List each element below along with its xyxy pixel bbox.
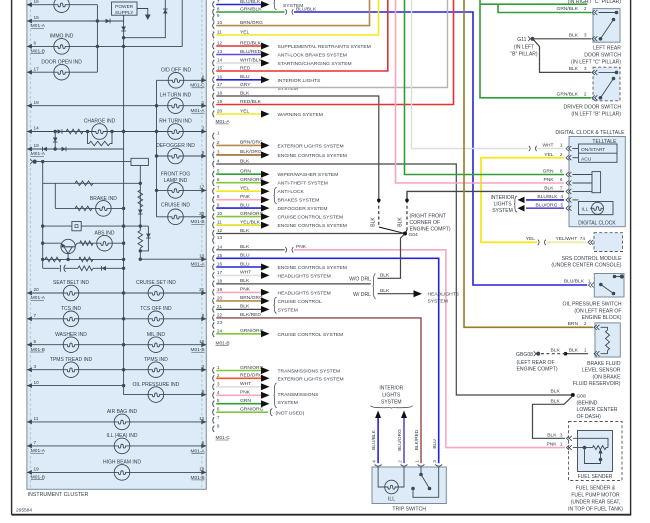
svg-text:BLK: BLK bbox=[569, 347, 579, 353]
svg-text:8: 8 bbox=[560, 169, 563, 174]
clock pin 6 PNK bbox=[566, 181, 569, 186]
svg-text:CRUISE CONTROL SYSTEM: CRUISE CONTROL SYSTEM bbox=[278, 215, 344, 221]
svg-text:POWER: POWER bbox=[115, 4, 134, 10]
CHARGE IND / RH TURN IND row bbox=[27, 131, 206, 133]
rect-chain vertical x140.3 bbox=[139, 166, 141, 227]
svg-text:ON/START: ON/START bbox=[581, 147, 605, 153]
svg-text:2: 2 bbox=[217, 373, 220, 378]
clock pin 8 GRN bbox=[566, 172, 569, 177]
svg-text:BRAKES SYSTEM: BRAKES SYSTEM bbox=[278, 198, 320, 204]
pin 15 (M01-B) bbox=[213, 255, 215, 261]
svg-text:(RIGHT FRONT: (RIGHT FRONT bbox=[410, 214, 446, 220]
svg-text:15: 15 bbox=[217, 253, 223, 258]
resistor row y183.3 bbox=[43, 182, 141, 184]
svg-text:HEADLIGHTS: HEADLIGHTS bbox=[428, 292, 460, 298]
svg-text:DRIVER DOOR SWITCH: DRIVER DOOR SWITCH bbox=[564, 105, 622, 111]
svg-text:(ON LEFT REAR OF: (ON LEFT REAR OF bbox=[574, 308, 621, 314]
svg-text:BLK: BLK bbox=[551, 388, 561, 394]
svg-text:14: 14 bbox=[217, 244, 223, 249]
svg-text:2: 2 bbox=[560, 152, 563, 157]
square component row y226.1 bbox=[43, 225, 141, 227]
pin 2 (M01-C) bbox=[213, 375, 215, 381]
connector M01-B group bbox=[212, 133, 214, 337]
svg-text:2: 2 bbox=[584, 321, 587, 326]
driver door switch (dashed) bbox=[593, 67, 620, 101]
pin 16 (M01-A) bbox=[213, 77, 215, 83]
wire BLU/ORG to trip pin 2 bbox=[401, 411, 407, 419]
pin 1 (M01-C) bbox=[213, 367, 215, 373]
SEAT BELT IND / CRUISE SET IND row bbox=[27, 292, 206, 294]
svg-text:SYSTEM: SYSTEM bbox=[381, 400, 402, 406]
svg-text:9: 9 bbox=[217, 13, 220, 18]
svg-text:LOWER CENTER: LOWER CENTER bbox=[577, 407, 618, 413]
pin 22 (M01-B) bbox=[213, 315, 215, 321]
clock inner component box bbox=[592, 172, 601, 193]
svg-text:11: 11 bbox=[217, 220, 222, 225]
svg-text:19: 19 bbox=[34, 143, 40, 148]
svg-text:17: 17 bbox=[217, 270, 223, 275]
svg-text:FUEL SENDER: FUEL SENDER bbox=[578, 474, 613, 480]
pin 15 row bbox=[27, 20, 124, 22]
cruise node row -> pin 13 bbox=[140, 225, 148, 227]
svg-text:7: 7 bbox=[34, 313, 37, 318]
pin 3 (M01-C) bbox=[213, 384, 215, 390]
DOOR OPEN IND row (pin 17) bbox=[27, 71, 98, 73]
wire BLK G11 to driver switch bbox=[534, 40, 591, 72]
pin 6 (M01-B) bbox=[213, 180, 215, 186]
svg-text:BLK: BLK bbox=[547, 432, 557, 438]
fuel sender wiper bbox=[585, 448, 601, 464]
svg-text:BLK: BLK bbox=[544, 186, 554, 192]
pin 5 (M01-C) bbox=[213, 401, 215, 407]
pin 24 (M01-B) bbox=[213, 331, 215, 337]
svg-text:OF DASH): OF DASH) bbox=[577, 414, 602, 420]
svg-text:(LEFT REAR OF: (LEFT REAR OF bbox=[517, 360, 555, 366]
svg-text:INTERIOR: INTERIOR bbox=[379, 386, 403, 392]
svg-text:16: 16 bbox=[217, 262, 223, 267]
svg-text:DEFOGGER SYSTEM: DEFOGGER SYSTEM bbox=[278, 206, 328, 212]
svg-text:HEADLIGHTS SYSTEM: HEADLIGHTS SYSTEM bbox=[278, 290, 331, 296]
pin 20 (M01-B) bbox=[213, 298, 215, 304]
svg-text:SYSTEM: SYSTEM bbox=[428, 299, 448, 305]
svg-text:GRN/BLK: GRN/BLK bbox=[557, 92, 579, 98]
svg-text:ACU: ACU bbox=[581, 157, 592, 163]
svg-text:ENGINE CONTROLS SYSTEM: ENGINE CONTROLS SYSTEM bbox=[278, 153, 347, 159]
svg-text:5: 5 bbox=[217, 398, 220, 403]
svg-text:YEL/WHT: YEL/WHT bbox=[556, 236, 578, 242]
svg-text:18: 18 bbox=[217, 91, 223, 96]
svg-text:BLK: BLK bbox=[398, 217, 404, 227]
svg-text:12: 12 bbox=[217, 228, 223, 233]
pin 6 (M01-C) bbox=[213, 409, 215, 415]
pin 4 (M01-B) bbox=[213, 161, 215, 167]
wire BLK G11 to left rear switch bbox=[535, 38, 592, 40]
pin 16 (M01-B) bbox=[213, 264, 215, 270]
interior lights arrows at clock bbox=[526, 199, 564, 201]
svg-text:DIGITAL CLOCK: DIGITAL CLOCK bbox=[578, 220, 616, 226]
trip switch box bbox=[372, 467, 446, 504]
figure border bottom bbox=[12, 514, 632, 516]
svg-text:ANTI-THEFT SYSTEM: ANTI-THEFT SYSTEM bbox=[278, 181, 328, 187]
svg-text:3: 3 bbox=[217, 149, 220, 154]
svg-text:7: 7 bbox=[217, 186, 220, 191]
figure border right bbox=[630, 0, 632, 515]
svg-text:WIPER/WASHER SYSTEM: WIPER/WASHER SYSTEM bbox=[278, 172, 339, 178]
svg-text:FUEL SENDER &: FUEL SENDER & bbox=[576, 485, 616, 491]
telltale inner box ON/START ACU bbox=[579, 144, 618, 162]
svg-text:9: 9 bbox=[217, 203, 220, 208]
svg-text:1: 1 bbox=[217, 131, 220, 136]
connector M01-A group bbox=[212, 1, 214, 118]
svg-text:17: 17 bbox=[217, 82, 223, 87]
svg-text:ENGINE COMPT): ENGINE COMPT) bbox=[410, 227, 451, 233]
svg-text:BRAKE FLUID: BRAKE FLUID bbox=[587, 361, 621, 367]
svg-text:1: 1 bbox=[202, 100, 205, 105]
svg-text:W/ DRL: W/ DRL bbox=[353, 292, 371, 298]
DEFOGGER IND row bbox=[157, 155, 207, 157]
svg-text:21: 21 bbox=[199, 287, 205, 292]
wire BLK + ground GBG08 bbox=[566, 353, 589, 355]
svg-text:19: 19 bbox=[217, 287, 223, 292]
svg-text:INSTRUMENT CLUSTER: INSTRUMENT CLUSTER bbox=[28, 492, 89, 498]
svg-text:265584: 265584 bbox=[16, 507, 32, 513]
svg-text:2: 2 bbox=[584, 92, 587, 97]
pin 21 (M01-B) bbox=[213, 306, 215, 312]
svg-text:TRIP SWITCH: TRIP SWITCH bbox=[392, 506, 426, 512]
svg-text:(IN LEFT: (IN LEFT bbox=[514, 44, 534, 50]
svg-text:(IN LEFT "B" PILLAR): (IN LEFT "B" PILLAR) bbox=[571, 112, 621, 118]
wire: vertical x97.4 bbox=[96, 5, 98, 73]
connector M01-C group bbox=[212, 367, 214, 432]
svg-text:2: 2 bbox=[398, 460, 403, 463]
pin 10 feed row + OIL PRESSURE IND row bbox=[27, 385, 124, 387]
pin 11 (M01-B) bbox=[213, 222, 215, 228]
svg-text:8: 8 bbox=[217, 423, 220, 428]
pin 13 (M01-A) bbox=[213, 51, 215, 57]
ground row y161.6 w/ box component bbox=[33, 160, 37, 164]
svg-text:BLK: BLK bbox=[551, 399, 561, 405]
svg-text:LEVEL SENSOR: LEVEL SENSOR bbox=[582, 368, 621, 374]
svg-text:10: 10 bbox=[217, 20, 223, 25]
feed vertical x182.2 bbox=[124, 0, 183, 46]
svg-text:1: 1 bbox=[560, 143, 563, 148]
svg-text:FLUID RESERVOIR): FLUID RESERVOIR) bbox=[573, 381, 621, 387]
pin 20 (M01-A) bbox=[213, 111, 215, 117]
diode feed x165.3 bbox=[124, 0, 166, 38]
svg-text:3: 3 bbox=[584, 33, 587, 38]
right column bus x156.5 bbox=[156, 80, 158, 217]
pin 7 (M01-A) bbox=[213, 1, 215, 7]
svg-text:23: 23 bbox=[217, 320, 223, 325]
pin 9 (M01-A) bbox=[213, 15, 215, 21]
svg-text:BLK: BLK bbox=[371, 217, 377, 227]
svg-text:19: 19 bbox=[217, 99, 223, 104]
CRUISE IND row bbox=[157, 216, 207, 218]
pin 10 (M01-B) bbox=[213, 214, 215, 220]
svg-text:3: 3 bbox=[217, 381, 220, 386]
pin 8 (M01-B) bbox=[213, 197, 215, 203]
pin 17 (M01-A) bbox=[213, 84, 215, 90]
svg-text:HEADLIGHTS SYSTEM: HEADLIGHTS SYSTEM bbox=[278, 273, 331, 279]
svg-text:CRUISE IND: CRUISE IND bbox=[161, 203, 190, 209]
svg-text:1: 1 bbox=[560, 442, 563, 447]
LH TURN IND row (pin18 left / pin1 right) bbox=[27, 105, 206, 107]
clock pin 2 YEL bbox=[566, 155, 569, 160]
svg-text:BLU/BLK: BLU/BLK bbox=[371, 429, 377, 450]
svg-text:INTERIOR: INTERIOR bbox=[491, 195, 515, 201]
pin 19 (M01-A) bbox=[213, 101, 215, 107]
TPMS TREAD IND / TPMS IND row bbox=[27, 369, 206, 371]
svg-text:(IN LEFT "C" PILLAR): (IN LEFT "C" PILLAR) bbox=[571, 60, 621, 66]
clock pin 4 BLU/BLK bbox=[566, 197, 569, 202]
wire BLU/BLK to trip pin 4 bbox=[375, 411, 381, 419]
connector dashed boundary right (M01) bbox=[201, 0, 203, 489]
svg-text:12: 12 bbox=[217, 41, 223, 46]
svg-text:SUPPLY: SUPPLY bbox=[115, 10, 134, 16]
svg-text:2: 2 bbox=[217, 140, 220, 145]
svg-text:BLK: BLK bbox=[551, 347, 561, 353]
pin 12 (M01-A) bbox=[213, 43, 215, 49]
svg-text:4: 4 bbox=[561, 194, 564, 199]
svg-text:5: 5 bbox=[561, 202, 564, 207]
svg-text:10: 10 bbox=[34, 380, 40, 385]
wire: power supply right + down arrow bbox=[137, 9, 148, 15]
svg-text:TRANSMISSIONS SYSTEM: TRANSMISSIONS SYSTEM bbox=[278, 369, 341, 375]
svg-text:7: 7 bbox=[560, 186, 563, 191]
main vertical bus x123.6 bbox=[123, 21, 125, 386]
svg-text:BLK: BLK bbox=[380, 288, 390, 294]
svg-text:OIL PRESSURE SWITCH: OIL PRESSURE SWITCH bbox=[563, 302, 622, 308]
pin 8 (M01-C) bbox=[213, 426, 215, 432]
svg-text:ANTI-LOCK: ANTI-LOCK bbox=[278, 189, 305, 195]
svg-text:BLK: BLK bbox=[569, 66, 579, 72]
pin 13 (M01-B) bbox=[213, 237, 215, 243]
wire BRN from top bbox=[464, 0, 593, 327]
pin 18 (M01-B) bbox=[213, 281, 215, 287]
svg-text:G11: G11 bbox=[517, 37, 526, 43]
connector dashed boundary left (M01) bbox=[29, 0, 31, 489]
svg-text:74: 74 bbox=[580, 236, 586, 241]
svg-text:FUEL PUMP MOTOR: FUEL PUMP MOTOR bbox=[571, 492, 620, 498]
svg-text:18: 18 bbox=[199, 467, 205, 472]
svg-text:8: 8 bbox=[217, 194, 220, 199]
svg-text:19: 19 bbox=[34, 467, 40, 472]
left rear door switch bbox=[593, 9, 620, 43]
pin 14 (M01-B) bbox=[213, 247, 215, 253]
svg-text:"B" PILLAR): "B" PILLAR) bbox=[510, 51, 538, 57]
pin 18 (M01-A) bbox=[213, 93, 215, 99]
svg-text:20: 20 bbox=[217, 295, 223, 300]
svg-text:16: 16 bbox=[34, 0, 40, 4]
svg-text:BLK: BLK bbox=[380, 272, 390, 278]
BRAKE IND row bbox=[55, 207, 123, 209]
svg-text:1: 1 bbox=[217, 365, 220, 370]
svg-text:18: 18 bbox=[34, 100, 40, 105]
pin 12 (M01-B) bbox=[213, 230, 215, 236]
svg-text:6: 6 bbox=[560, 177, 563, 182]
svg-text:ILL: ILL bbox=[582, 206, 589, 212]
wire: power supply bottom stub bbox=[123, 15, 125, 21]
svg-text:8: 8 bbox=[202, 313, 205, 318]
svg-text:BLK: BLK bbox=[569, 33, 579, 39]
svg-text:13: 13 bbox=[199, 253, 205, 258]
svg-text:WARNING SYSTEM: WARNING SYSTEM bbox=[278, 112, 323, 118]
svg-text:16: 16 bbox=[217, 74, 223, 79]
clock pin 5 BLU/ORG bbox=[566, 206, 569, 211]
wire GRN/BLK from top to door switches bbox=[480, 0, 591, 98]
svg-text:11: 11 bbox=[217, 30, 222, 35]
clock ILL lamp box bbox=[579, 202, 614, 215]
svg-text:ENGINE BLOCK): ENGINE BLOCK) bbox=[582, 315, 622, 321]
svg-text:SYSTEM: SYSTEM bbox=[278, 307, 298, 313]
svg-text:8: 8 bbox=[217, 7, 220, 12]
SRS control module (dashed) bbox=[594, 233, 623, 252]
svg-text:DOOR SWITCH: DOOR SWITCH bbox=[584, 53, 621, 59]
svg-text:BLU: BLU bbox=[432, 439, 438, 449]
pin 5 (M01-B) bbox=[213, 171, 215, 177]
ground G04 bbox=[403, 232, 407, 236]
svg-text:11: 11 bbox=[34, 416, 39, 421]
svg-text:ILL: ILL bbox=[388, 497, 395, 503]
power supply box bbox=[112, 2, 138, 15]
svg-text:BLK/RED: BLK/RED bbox=[414, 429, 420, 450]
svg-text:(ON BRAKE: (ON BRAKE bbox=[592, 374, 621, 380]
svg-text:20: 20 bbox=[217, 109, 223, 114]
svg-text:ENGINE COMPT): ENGINE COMPT) bbox=[517, 367, 558, 373]
ILL (4EA) IND row bbox=[27, 445, 206, 447]
pin 11 (M01-A) bbox=[213, 32, 215, 38]
svg-text:13: 13 bbox=[217, 49, 223, 54]
pin 7 (M01-B) bbox=[213, 188, 215, 194]
trip ILL lamp bbox=[378, 467, 384, 487]
pin 14 (M01-A) bbox=[213, 60, 215, 66]
figure border left bbox=[11, 0, 13, 515]
svg-text:LEFT REAR: LEFT REAR bbox=[593, 46, 621, 52]
svg-text:6: 6 bbox=[217, 407, 220, 412]
ground G08 bbox=[571, 393, 575, 397]
svg-text:IN TOP OF FUEL TANK): IN TOP OF FUEL TANK) bbox=[568, 506, 623, 512]
svg-text:12: 12 bbox=[199, 416, 205, 421]
pin 16 row / top lamp (cut) bbox=[27, 4, 98, 6]
svg-text:21: 21 bbox=[217, 304, 223, 309]
svg-text:3: 3 bbox=[584, 66, 587, 71]
svg-text:6: 6 bbox=[202, 440, 205, 445]
pin 15 (M01-A) bbox=[213, 68, 215, 74]
WASHER IND / MIL IND row bbox=[27, 344, 206, 346]
svg-text:GRN/BLK: GRN/BLK bbox=[557, 6, 579, 12]
svg-text:(BEHIND: (BEHIND bbox=[577, 401, 598, 407]
svg-text:SUPPLEMENTAL RESTRAINTS SYSTEM: SUPPLEMENTAL RESTRAINTS SYSTEM bbox=[278, 44, 371, 50]
svg-text:10: 10 bbox=[217, 211, 223, 216]
svg-text:4: 4 bbox=[217, 159, 220, 164]
left bus x55.2 w/ diode bbox=[54, 132, 56, 150]
AIR BAG IND row bbox=[27, 421, 206, 423]
svg-text:3: 3 bbox=[432, 460, 437, 463]
svg-text:(NOT USED): (NOT USED) bbox=[276, 410, 305, 416]
svg-text:TRANSMISSIONS: TRANSMISSIONS bbox=[278, 392, 320, 398]
ground G11 bbox=[530, 37, 534, 41]
svg-text:(IN RIGHT "C" PILLAR): (IN RIGHT "C" PILLAR) bbox=[568, 0, 622, 5]
svg-text:SRS CONTROL MODULE: SRS CONTROL MODULE bbox=[562, 256, 622, 262]
svg-text:EXTERIOR LIGHTS SYSTEM: EXTERIOR LIGHTS SYSTEM bbox=[278, 143, 344, 149]
svg-text:3: 3 bbox=[560, 432, 563, 437]
wire WHT vertical from top w/ inline connector bbox=[412, 0, 529, 149]
brake feed vertical x55.3 bbox=[54, 183, 56, 208]
svg-text:6: 6 bbox=[202, 75, 205, 80]
svg-text:20: 20 bbox=[199, 211, 205, 216]
svg-text:BRN: BRN bbox=[568, 321, 579, 327]
cap/diode row y268.3 bbox=[43, 267, 60, 269]
svg-text:BLU/ORG: BLU/ORG bbox=[397, 429, 403, 451]
svg-text:2: 2 bbox=[584, 6, 587, 11]
svg-text:CORNER OF: CORNER OF bbox=[410, 220, 441, 226]
svg-text:LIGHTS: LIGHTS bbox=[493, 201, 512, 207]
svg-text:6: 6 bbox=[34, 41, 37, 46]
HIGH BEAM IND row bbox=[27, 471, 206, 473]
svg-text:G04: G04 bbox=[409, 232, 419, 238]
pin 23 (M01-B) bbox=[213, 323, 215, 329]
svg-text:9: 9 bbox=[202, 150, 205, 155]
svg-text:2: 2 bbox=[202, 126, 205, 131]
IMMO IND row (pin 6) bbox=[27, 45, 124, 47]
pin 19 row w/ opposed diodes bbox=[27, 148, 124, 150]
svg-text:PNK: PNK bbox=[546, 442, 557, 448]
resistor row y259.4 bbox=[43, 258, 124, 260]
svg-text:W/O DRL: W/O DRL bbox=[349, 277, 371, 283]
parallel resistor under charge lamp bbox=[88, 132, 90, 144]
svg-text:6: 6 bbox=[217, 177, 220, 182]
svg-text:(UNDER CENTER CONSOLE): (UNDER CENTER CONSOLE) bbox=[551, 263, 621, 269]
svg-text:2: 2 bbox=[202, 364, 205, 369]
svg-text:3: 3 bbox=[34, 364, 37, 369]
svg-text:LIGHTS: LIGHTS bbox=[382, 393, 401, 399]
svg-text:EXTERIOR LIGHTS SYSTEM: EXTERIOR LIGHTS SYSTEM bbox=[278, 376, 344, 382]
pin 17 (M01-B) bbox=[213, 272, 215, 278]
svg-text:8: 8 bbox=[202, 389, 205, 394]
pin 2 (M01-B) bbox=[213, 142, 215, 148]
trip switch contacts bbox=[420, 467, 422, 475]
svg-text:7: 7 bbox=[34, 440, 37, 445]
pin 10 (M01-A) bbox=[213, 23, 215, 29]
pin 19 (M01-B) bbox=[213, 289, 215, 295]
diode on pin15 row bbox=[106, 19, 111, 24]
pin 9 (M01-B) bbox=[213, 205, 215, 211]
svg-text:4: 4 bbox=[217, 390, 220, 395]
svg-text:STARTING/CHARGING SYSTEM: STARTING/CHARGING SYSTEM bbox=[278, 61, 352, 67]
svg-text:20: 20 bbox=[34, 287, 40, 292]
wire YEL loop clock to SRS bbox=[481, 158, 564, 243]
svg-text:CRUISE CONTROL SYSTEM: CRUISE CONTROL SYSTEM bbox=[278, 332, 344, 338]
svg-text:14: 14 bbox=[34, 126, 40, 131]
svg-text:SYSTEM: SYSTEM bbox=[492, 208, 513, 214]
svg-text:5: 5 bbox=[34, 339, 37, 344]
O/D OFF IND row bbox=[157, 79, 207, 81]
svg-text:G08: G08 bbox=[577, 394, 587, 400]
svg-text:INTERIOR LIGHTS: INTERIOR LIGHTS bbox=[278, 78, 322, 84]
svg-text:18: 18 bbox=[217, 278, 223, 283]
pin 8 (M01-A) bbox=[213, 9, 215, 15]
svg-text:BLU/BLK: BLU/BLK bbox=[564, 279, 585, 285]
svg-text:GBG08: GBG08 bbox=[516, 352, 533, 358]
svg-text:DIGITAL CLOCK & TELLTALE: DIGITAL CLOCK & TELLTALE bbox=[555, 130, 625, 136]
svg-text:CRUISE CONTROL: CRUISE CONTROL bbox=[278, 299, 322, 305]
clock pin 7 BLK bbox=[566, 189, 569, 194]
instrument cluster box bbox=[27, 0, 206, 489]
svg-text:FRONT FOG: FRONT FOG bbox=[161, 172, 190, 178]
svg-text:24: 24 bbox=[217, 328, 223, 333]
svg-text:SYSTEM: SYSTEM bbox=[278, 400, 298, 406]
svg-text:(UNDER REAR SEAT,: (UNDER REAR SEAT, bbox=[571, 499, 621, 505]
